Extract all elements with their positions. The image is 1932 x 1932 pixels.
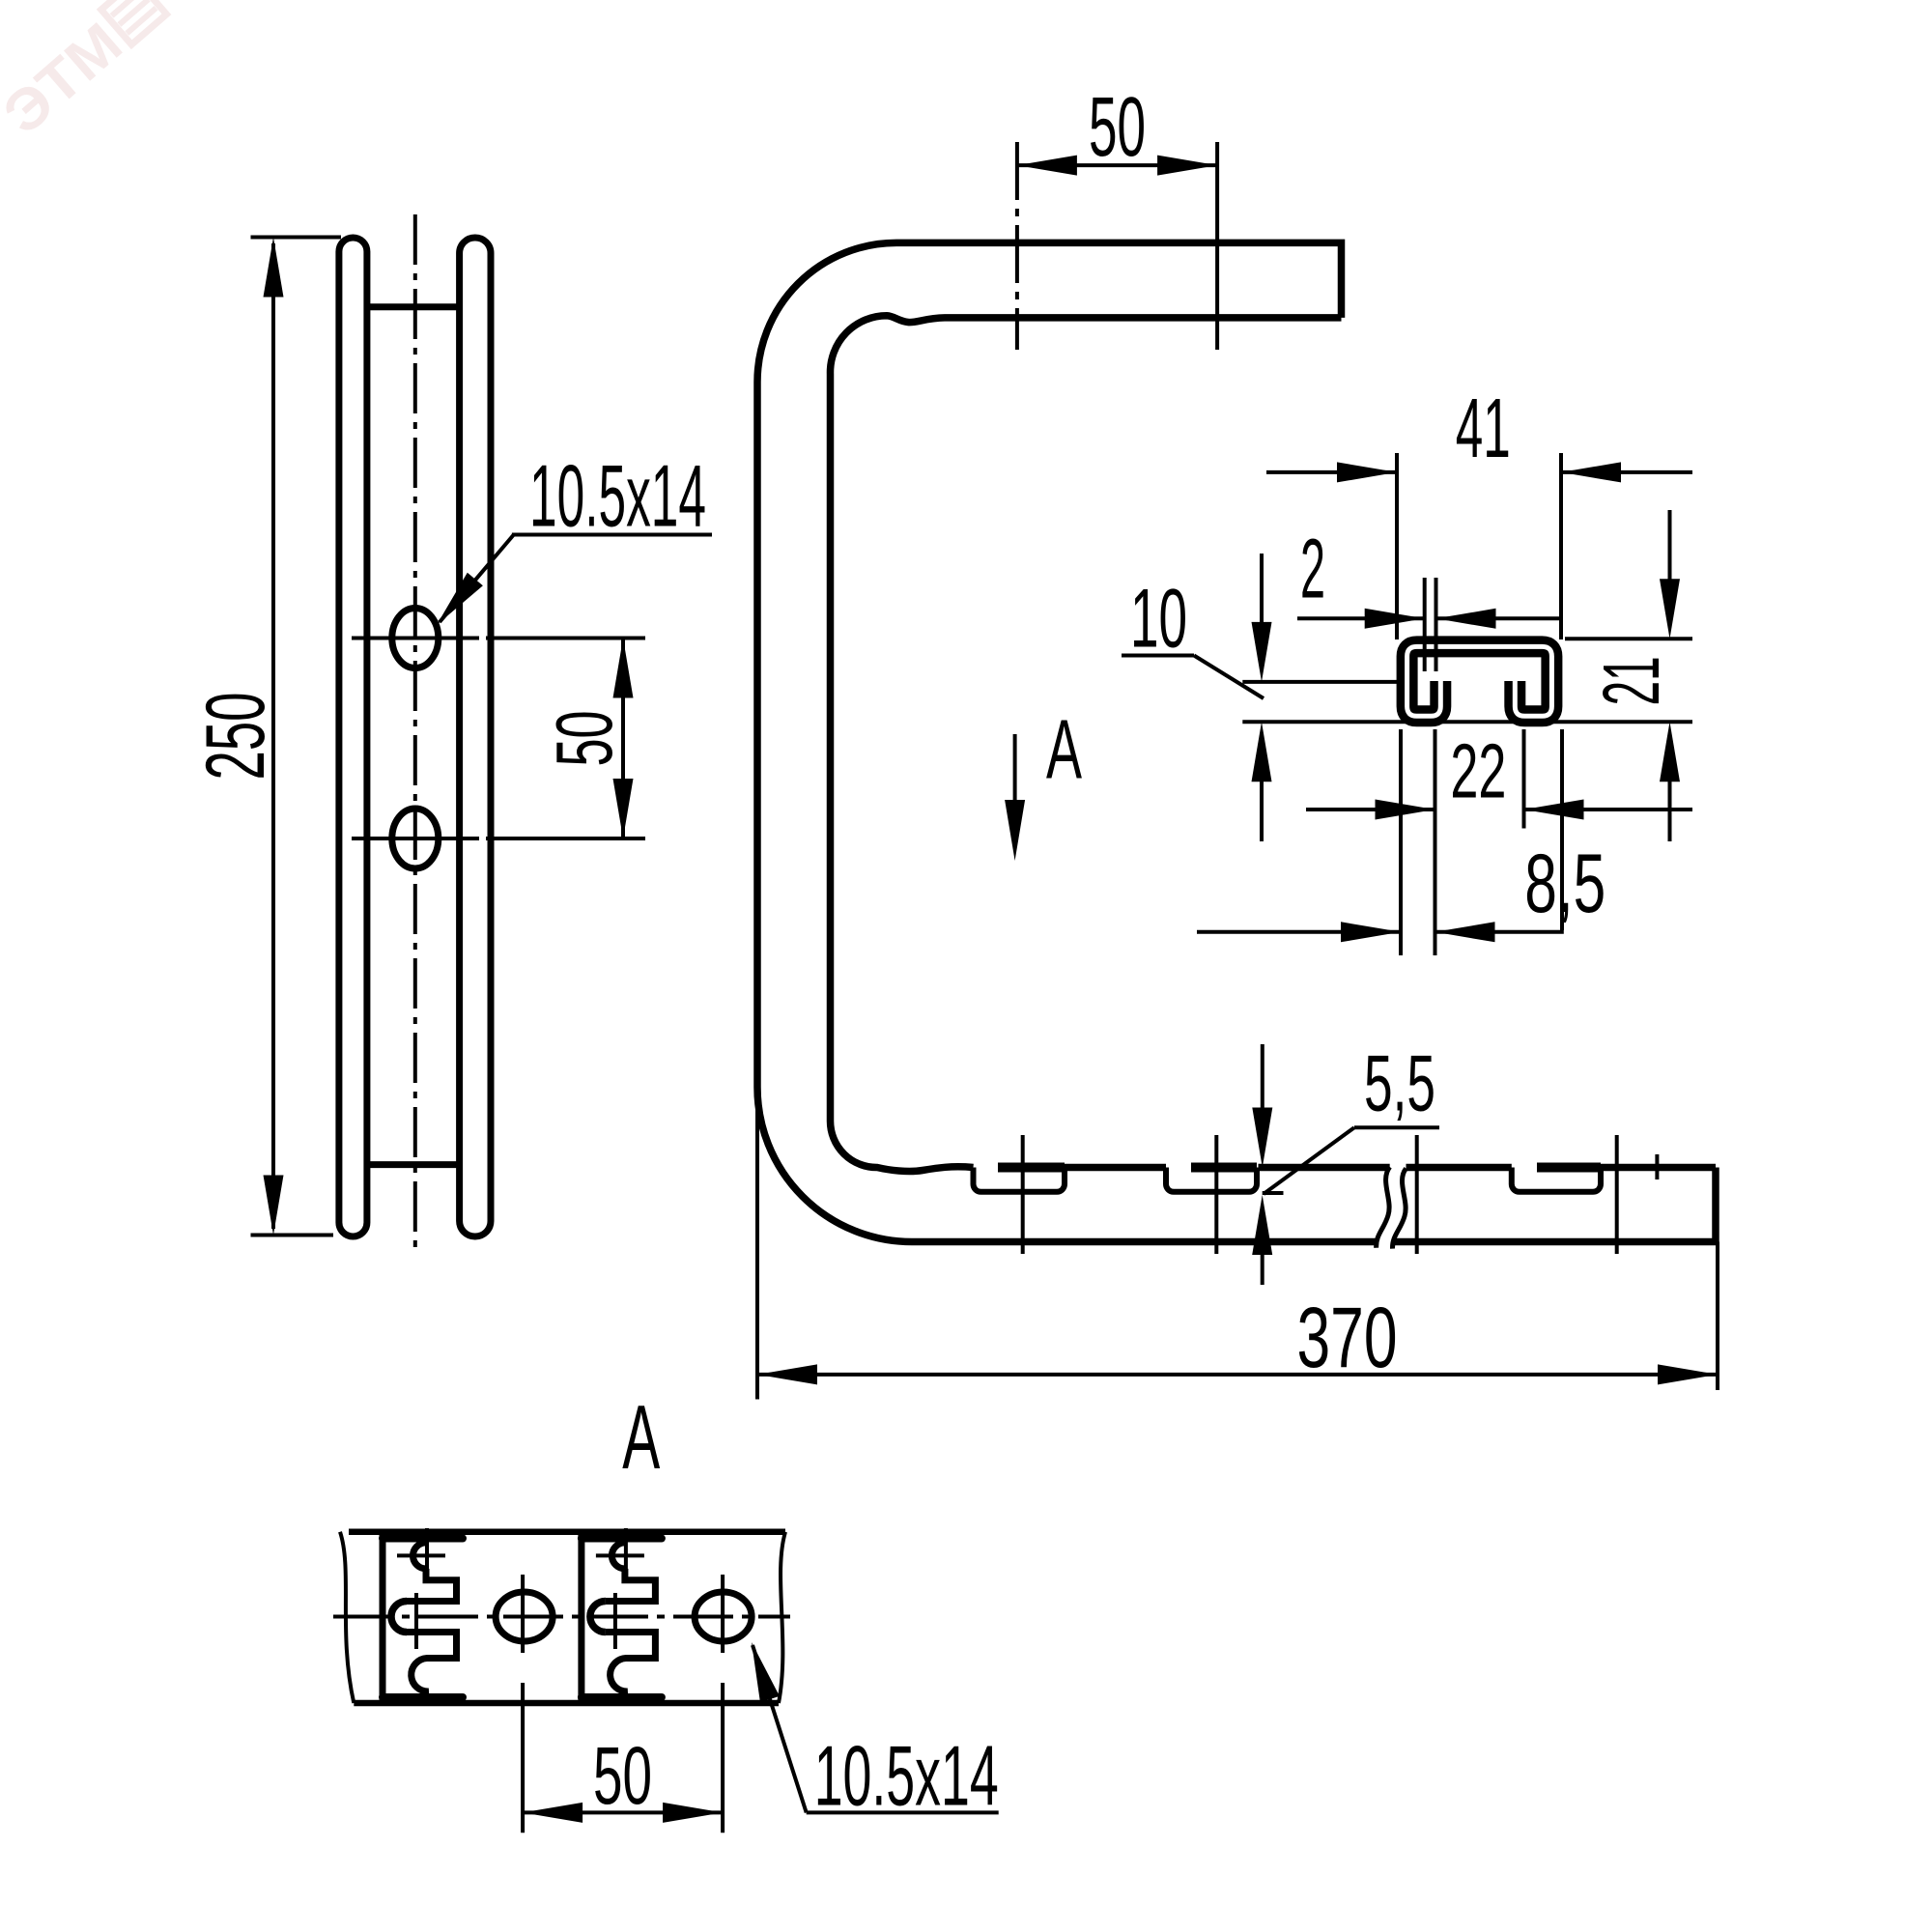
dimension 5,5 (slot depth): [1263, 1044, 1439, 1285]
slot 3 outline: [1512, 1168, 1601, 1192]
dimension 41: [1266, 453, 1692, 639]
slot group 1 (view A): [383, 1528, 463, 1703]
dimension 8,5: [1197, 930, 1564, 934]
dimension 2 (sheet thickness): [1297, 578, 1562, 671]
slot / hole centerline ticks: [1021, 1135, 1025, 1254]
leader 10.5x14 (side view hole): [440, 535, 712, 623]
dimension 50 (hole spacing, side view): [621, 639, 625, 839]
main axis centerline: [333, 1615, 790, 1619]
oblong hole 1: [392, 609, 439, 668]
left break line: [340, 1532, 354, 1703]
bottom edge right of break + right end: [1393, 1168, 1717, 1242]
side wall 1 (left channel wall, rounded ends): [339, 238, 367, 1236]
svg-text:370: 370: [1297, 1289, 1398, 1385]
oblong hole A2: [695, 1592, 752, 1641]
web edge bottom: [367, 1161, 460, 1168]
vertical centerline: [413, 214, 417, 1250]
svg-text:10: 10: [1130, 573, 1187, 666]
dimension 370: [757, 1087, 1718, 1400]
profile 41x21 sheet: midline stroked thick black + white core: [1407, 646, 1552, 716]
oblong hole A1: [496, 1592, 553, 1641]
dimension 50 (top flange): [1017, 142, 1217, 350]
svg-text:5,5: 5,5: [1364, 1038, 1435, 1128]
hole A1 vertical centerline: [521, 1575, 525, 1833]
slot 3 far lip edge: [1537, 1163, 1601, 1173]
slot 2 far lip edge: [1191, 1163, 1257, 1173]
slot 2 outline: [1166, 1168, 1257, 1192]
leader 10.5x14 (view A hole): [753, 1645, 999, 1812]
break squiggle 1: [1377, 1167, 1390, 1248]
slot group 2 (view A): [582, 1528, 662, 1703]
dimension 21 (profile height): [1242, 510, 1692, 841]
top edge segment slot2 - break: [1259, 1164, 1390, 1172]
dimension 250: [251, 238, 342, 1236]
top edge of bottom leg: segment slot1-slot2: [1065, 1164, 1166, 1172]
svg-text:A: A: [622, 1386, 660, 1488]
watermark ETM logo: [0, 0, 175, 147]
svg-text:50: 50: [593, 1730, 652, 1821]
svg-text:22: 22: [1450, 728, 1506, 814]
svg-text:21: 21: [1586, 656, 1676, 705]
side wall 2 (right channel wall, rounded ends): [460, 238, 491, 1236]
leader + dimension 10 (lip drop): [1122, 554, 1397, 841]
right break line: [779, 1532, 785, 1703]
inner contour: flange bottom edge with wiggle, inner corner, inner leg: [830, 316, 1341, 1172]
svg-text:50: 50: [539, 711, 629, 767]
dimension 22 (lip opening): [1306, 729, 1692, 955]
hole 2 centerline: [352, 837, 645, 840]
outer contour: flange right end, top edge, outer corner, leg, bottom outer corner, bottom edge (to break): [757, 242, 1378, 1241]
svg-text:41: 41: [1456, 382, 1511, 475]
strip bottom edge: [354, 1700, 779, 1707]
svg-text:50: 50: [1089, 80, 1146, 174]
svg-text:10.5x14: 10.5x14: [529, 448, 706, 546]
svg-text:10.5x14: 10.5x14: [814, 1727, 999, 1823]
top edge segment slot3 - right end: [1601, 1164, 1716, 1172]
strip top edge: [349, 1529, 785, 1536]
top edge segment break - slot3: [1406, 1164, 1512, 1172]
break squiggle 2: [1392, 1169, 1406, 1249]
slot 1 far lip edge: [998, 1163, 1065, 1173]
svg-text:2: 2: [1300, 522, 1325, 615]
svg-text:A: A: [1046, 703, 1082, 797]
hole A2 vertical centerline: [721, 1575, 724, 1833]
dimension 50 (view A hole spacing): [523, 1810, 723, 1814]
svg-text:250: 250: [189, 693, 282, 781]
hole 1 centerline: [352, 637, 645, 640]
oblong hole 2: [392, 809, 439, 868]
slot 1 outline: [974, 1168, 1065, 1192]
web edge top: [367, 303, 460, 310]
svg-text:8,5: 8,5: [1524, 838, 1605, 930]
view A arrow (main view): [1013, 734, 1017, 802]
